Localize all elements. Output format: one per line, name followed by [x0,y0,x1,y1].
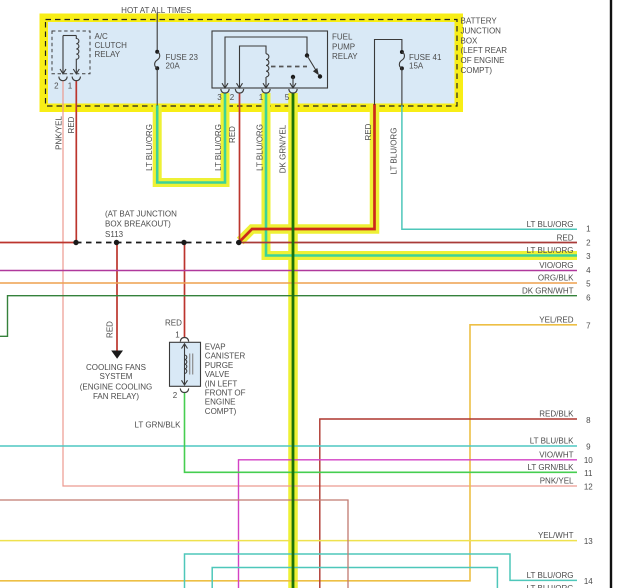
fuel pump relay pin 1 arrow [263,83,269,88]
svg-text:PURGE: PURGE [205,361,233,370]
A/C clutch relay dashed box [52,31,90,74]
svg-text:ORG/BLK: ORG/BLK [538,274,574,283]
svg-text:BATTERY: BATTERY [461,17,498,26]
wire PNK (brown) bottom left [0,500,348,588]
fuel pump relay pin 3 arrow [222,83,228,88]
wire LT BLU/BLK (wire 9) across [0,445,577,447]
svg-text:YEL/WHT: YEL/WHT [538,531,574,540]
svg-text:8: 8 [586,416,591,425]
cooling fans arrowhead [111,351,123,359]
right page border [610,0,612,588]
svg-text:1: 1 [175,331,180,340]
EVAP valve pin 1 socket cup [180,338,188,342]
svg-text:5: 5 [285,93,290,102]
S113 dashed breakout line [76,242,240,244]
wire pin5 DK GRN/YEL highlight halo [288,93,298,588]
svg-text:RED: RED [165,319,182,328]
svg-text:5: 5 [586,280,591,289]
fuel pump relay switch contact dot [318,74,322,78]
A/C relay switch line [62,36,64,74]
svg-text:LT BLU/ORG: LT BLU/ORG [527,220,574,229]
fuse F23 symbol [155,50,159,54]
A/C relay pin 1 socket cup [72,77,80,81]
fuel pump relay pin 5 contact dot and line [291,75,295,79]
battery junction box blue fill [46,20,458,107]
wire RED/BLK (wire 8) from bottom up and right [320,419,577,588]
svg-text:BOX: BOX [461,36,479,45]
fuel pump relay box [212,31,328,88]
splice S113 junction dot B [114,240,119,245]
svg-text:(IN LEFT: (IN LEFT [205,379,238,388]
wire LT BLU/ORG fuse23-to-pin3 core [157,93,225,183]
svg-text:(LEFT REAR: (LEFT REAR [461,46,508,55]
wire RED splice to EVAP valve pin 1 [184,243,186,338]
svg-text:BOX BREAKOUT): BOX BREAKOUT) [105,220,171,229]
EVAP valve internal line [184,344,186,385]
fuel pump relay pin 5 arrow [290,83,296,88]
wire fuse23-to-pin3 LT BLU/ORG highlight halo [157,93,225,183]
svg-text:1: 1 [259,93,264,102]
svg-text:RED: RED [364,123,373,140]
EVAP valve pin 2 socket cup [180,388,188,392]
splice S113 junction dot A [73,240,78,245]
svg-text:3: 3 [586,252,591,261]
fuel pump relay pin 1 socket cup [262,89,270,93]
svg-text:LT BLU/ORG: LT BLU/ORG [527,584,574,588]
svg-text:EVAP: EVAP [205,343,226,352]
svg-text:LT GRN/BLK: LT GRN/BLK [135,421,182,430]
svg-text:RED: RED [67,116,76,133]
wire RED fuel pump relay pin 2 to splice [239,93,241,243]
svg-text:COMPT): COMPT) [461,66,493,75]
svg-text:RELAY: RELAY [332,52,358,61]
A/C relay coil [76,36,79,74]
wire LT BLU/ORG teal B to bottom [212,568,497,588]
svg-text:11: 11 [584,469,593,478]
svg-text:OF ENGINE: OF ENGINE [461,56,505,65]
svg-text:RED/BLK: RED/BLK [539,410,574,419]
svg-text:RELAY: RELAY [95,50,121,59]
wire RED left from splice S113 to left edge [0,242,76,244]
wire ORG/BLK (wire 5) across [0,282,577,284]
svg-text:7: 7 [586,322,591,331]
svg-text:FUEL: FUEL [332,32,353,41]
fuel pump relay pin 2 arrow [237,83,243,88]
svg-text:LT BLU/ORG: LT BLU/ORG [389,128,398,175]
fuel pump relay switch arm arrowhead [313,68,319,75]
svg-text:CANISTER: CANISTER [205,352,246,361]
svg-text:3: 3 [217,93,222,102]
svg-text:COMPT): COMPT) [205,407,237,416]
svg-text:DK GRN/YEL: DK GRN/YEL [278,124,287,173]
svg-text:LT BLU/ORG: LT BLU/ORG [255,124,264,171]
wire DK GRN/YEL pin5 core [292,93,295,588]
svg-text:FAN RELAY): FAN RELAY) [93,392,139,401]
svg-text:S113: S113 [105,230,124,239]
splice S113 junction dot C [181,240,186,245]
fuel pump relay pin 3 socket cup [221,89,229,93]
svg-text:15A: 15A [409,62,424,71]
wire fuse41-feed RED highlight halo [240,104,374,241]
svg-text:1: 1 [586,225,591,234]
wire pin1 LT BLU/ORG highlight halo [266,93,577,256]
svg-text:6: 6 [586,293,591,302]
fuse 41 output line [401,68,403,105]
fuel pump relay switch arm [307,56,317,73]
svg-text:LT BLU/BLK: LT BLU/BLK [530,437,574,446]
svg-text:RED: RED [557,234,574,243]
wire YEL/RED (wire 7) from left edge bottom up to right edge [0,325,577,581]
svg-text:VALVE: VALVE [205,370,230,379]
svg-text:PNK/YEL: PNK/YEL [54,116,63,150]
fuel pump relay pin 2 line to coil top [240,46,267,88]
hot at all times feed line [156,13,158,50]
EVAP valve core bars [190,354,193,375]
svg-text:2: 2 [230,93,235,102]
A/C relay pin 2 arrow chevron [60,69,66,74]
fuel pump relay pin 3 line and top link to switch [225,37,307,88]
wire LT BLU/ORG (wire 14) teal A [185,554,578,588]
wire VIO/ORG (wire 4) across [0,270,577,272]
svg-text:PNK/YEL: PNK/YEL [540,477,574,486]
EVAP valve box [170,342,201,386]
svg-text:RED: RED [105,321,114,338]
battery junction box yellow highlight border [44,18,459,108]
battery junction box dashed border [46,20,458,107]
svg-text:13: 13 [584,537,593,546]
fuel pump relay pin 5 socket cup [289,89,297,93]
svg-text:1: 1 [68,81,73,90]
fuel pump relay pin 2 socket cup [235,89,243,93]
svg-text:14: 14 [584,577,593,586]
svg-text:LT GRN/BLK: LT GRN/BLK [528,463,575,472]
EVAP valve pin 2 arrow [182,380,188,385]
wire LT GRN/BLK (wire 11) from EVAP pin 2 down and right [185,392,578,472]
svg-text:SYSTEM: SYSTEM [100,372,133,381]
svg-text:CLUTCH: CLUTCH [95,41,128,50]
wire RED from A/C relay pin 1 to splice S113 [75,80,77,243]
svg-text:10: 10 [584,456,593,465]
EVAP valve coil [185,355,187,373]
svg-text:2: 2 [54,81,59,90]
A/C relay pin 2 socket cup [59,77,67,81]
svg-text:FRONT OF: FRONT OF [205,389,246,398]
svg-text:VIO/WHT: VIO/WHT [539,450,573,459]
A/C relay pin 1 arrow chevron [73,69,79,74]
fuel pump relay pin 1 line below coil [265,77,267,88]
wire RED (wire 2) splice to right edge [239,242,577,244]
svg-text:(AT BAT JUNCTION: (AT BAT JUNCTION [105,210,177,219]
fuel pump relay mechanical link dashed [271,66,307,68]
svg-text:JUNCTION: JUNCTION [461,26,502,35]
svg-text:LT BLU/ORG: LT BLU/ORG [214,124,223,171]
svg-text:9: 9 [586,443,591,452]
svg-text:PUMP: PUMP [332,43,355,52]
wire DK GRN/WHT (wire 6) with left jog [0,296,577,337]
svg-text:(ENGINE COOLING: (ENGINE COOLING [80,382,152,391]
svg-text:ENGINE: ENGINE [205,398,236,407]
svg-text:VIO/ORG: VIO/ORG [539,261,573,270]
splice S113 junction dot D [236,240,241,245]
svg-text:COOLING FANS: COOLING FANS [86,363,146,372]
svg-text:YEL/RED: YEL/RED [539,315,573,324]
svg-text:20A: 20A [166,62,181,71]
EVAP valve pin 1 arrow [182,344,188,349]
wire LT BLU/ORG pin1 core (wire 3) [266,93,577,256]
wire PNK/YEL from A/C relay pin 2 down and right to edge (wire 12) [63,80,577,486]
wire VIO/WHT (wire 10) from bottom up and right [239,460,578,588]
svg-text:12: 12 [584,482,593,491]
fuse F41 symbol [400,50,404,54]
fuse 41 feed hook [375,40,402,106]
svg-text:LT BLU/ORG: LT BLU/ORG [527,246,574,255]
fuel pump relay switch pivot dot [305,53,309,57]
svg-text:RED: RED [228,126,237,143]
svg-text:LT BLU/ORG: LT BLU/ORG [527,571,574,580]
svg-text:HOT AT ALL TIMES: HOT AT ALL TIMES [121,6,191,15]
svg-text:4: 4 [586,266,591,275]
wire YEL/WHT (wire 13) across [0,540,577,542]
A/C relay top link [63,35,76,37]
fuse 23 output line [156,68,158,105]
svg-text:DK GRN/WHT: DK GRN/WHT [522,287,574,296]
wire RED fuse 41 feed core [240,104,374,241]
svg-text:A/C: A/C [95,32,109,41]
wire LT BLU/ORG from fuse 41 down and right (wire 1) [402,105,577,229]
fuel pump relay coil [266,54,269,77]
svg-text:2: 2 [173,391,178,400]
svg-text:LT BLU/ORG: LT BLU/ORG [145,124,154,171]
wire RED splice to cooling fans arrow [116,243,118,351]
svg-text:2: 2 [586,238,591,247]
